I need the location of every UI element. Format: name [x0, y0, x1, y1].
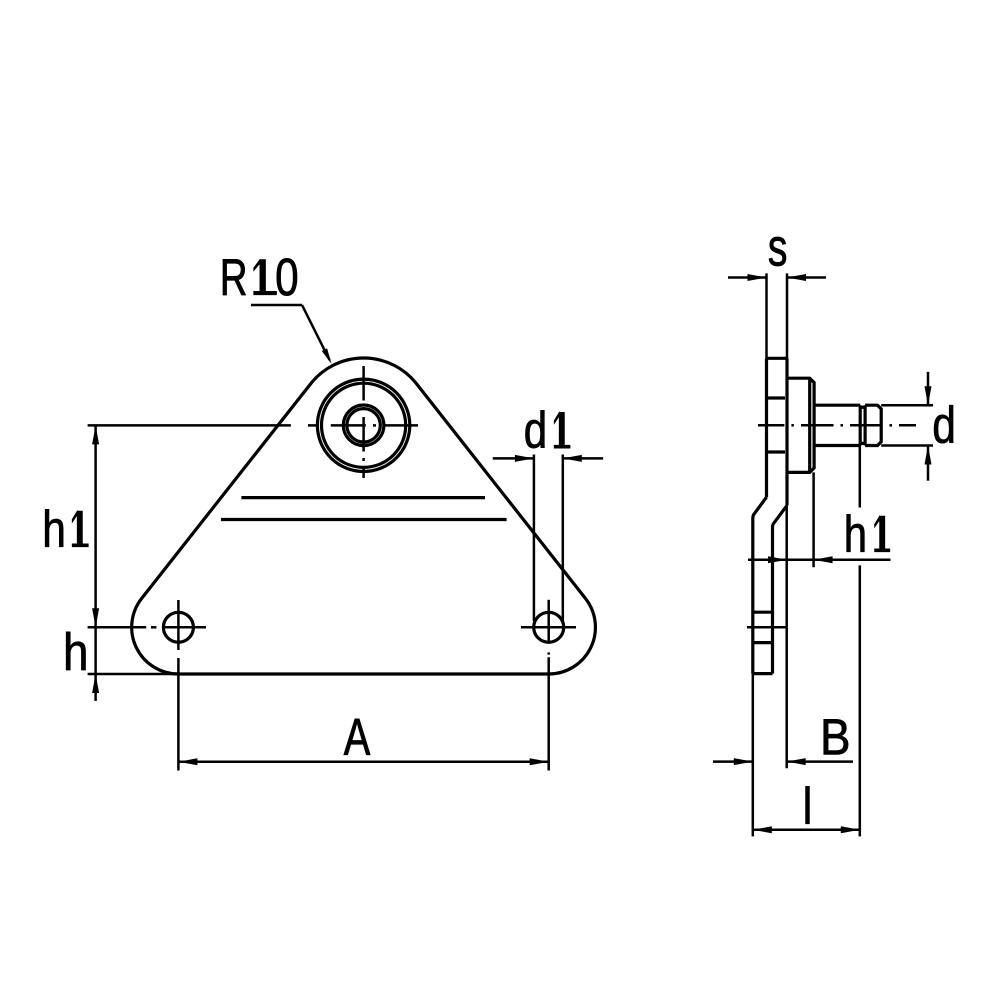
s left outside arrow	[748, 274, 767, 281]
d1 left outside arrow	[515, 455, 534, 462]
l left arrow	[753, 826, 772, 833]
h bottom outside arrow	[92, 674, 99, 693]
front view: top boss outer circle	[317, 379, 409, 471]
front view: upper bend line	[241, 496, 485, 499]
d bottom outside arrow	[925, 446, 932, 465]
side view: bottom hole top edge	[753, 611, 773, 614]
h1 bottom arrow	[92, 608, 99, 627]
side view: pin end cap outline	[865, 405, 881, 445]
side view: plate upper strip back edge	[765, 358, 768, 497]
front view: bottom-left hole	[163, 612, 193, 642]
boss face extension line (h1)	[812, 472, 815, 567]
right hole horizontal centerline	[521, 626, 576, 629]
dimension h1 (side) line	[748, 558, 891, 561]
h1 extension line / top hole horizontal centerline	[88, 424, 291, 427]
d1 dimension line right tail	[563, 457, 603, 460]
front view: top boss inner circle	[322, 383, 406, 467]
side view: plate top edge	[767, 357, 788, 360]
side view: groove top edge	[860, 406, 865, 409]
side view: plate front face edge	[785, 358, 788, 505]
side view: pin groove left edge	[859, 405, 862, 445]
side view: jog front edge diagonal	[773, 505, 788, 673]
B right outside arrow	[787, 758, 806, 765]
side view: lower edge tick	[767, 450, 786, 453]
dimension h1 (front) line	[94, 425, 97, 627]
d1 right extension line	[562, 455, 565, 622]
side view: pin centerline	[758, 424, 784, 427]
s right extension line	[786, 273, 789, 358]
h bottom extension line	[88, 673, 180, 676]
left hole vertical centerline / A extension line	[177, 600, 180, 650]
lower strip back face extension line (B/l)	[752, 674, 755, 837]
h1 side left outside arrow	[768, 556, 787, 563]
B left outside arrow	[734, 758, 753, 765]
side view: boss chamfer silhouette	[808, 378, 811, 472]
label h1 (side)	[847, 514, 890, 552]
s left extension line	[765, 273, 768, 358]
side view: bottom hole centerline	[747, 626, 787, 629]
side view: pin groove right edge	[863, 405, 866, 445]
side view: pin shaft top edge	[814, 404, 860, 407]
side view: plate bottom edge	[753, 672, 773, 675]
d bottom extension line	[881, 444, 933, 447]
A left arrow	[178, 758, 197, 765]
d dimension line bottom tail	[927, 446, 930, 481]
plate front face extension line (h1/B)	[785, 505, 788, 768]
R10 leader underline	[251, 304, 302, 307]
side view: jog back edge diagonal	[753, 497, 767, 673]
d dimension line top tail	[927, 372, 930, 405]
label s	[769, 237, 786, 266]
dimension l line	[753, 829, 860, 832]
label B	[824, 719, 848, 754]
dimension h line	[94, 627, 97, 674]
d top outside arrow	[925, 386, 932, 405]
h1/h extension line + left hole horizontal centerline	[88, 626, 147, 629]
label l	[806, 786, 810, 824]
side view: groove bottom edge	[860, 442, 865, 445]
B dimension line right tail	[787, 760, 853, 763]
d1 right outside arrow	[563, 455, 582, 462]
front view: bracket plate outline (rounded triangle, corner R10)	[132, 358, 596, 674]
side view: upper edge tick	[767, 396, 786, 399]
l right arrow	[841, 826, 860, 833]
label R10	[223, 258, 297, 295]
R10 leader diagonal	[302, 305, 330, 360]
h1 side right outside arrow	[814, 556, 833, 563]
s right outside arrow	[787, 274, 806, 281]
top hole vertical centerline	[362, 366, 365, 401]
front view: lower bend line	[221, 518, 507, 521]
front view: pin bore circle	[347, 409, 380, 442]
label h	[66, 632, 85, 670]
R10 leader arrow	[322, 348, 332, 364]
label A	[344, 719, 370, 755]
h1 top arrow	[92, 425, 99, 444]
front view: pin outer circle	[343, 405, 384, 446]
A right arrow	[530, 758, 549, 765]
d1 left extension line	[533, 455, 536, 622]
pin groove extension line (l)	[859, 446, 862, 508]
side view: pin shaft bottom edge	[814, 444, 860, 447]
front view: bottom-right hole	[534, 612, 564, 642]
d top extension line	[881, 404, 933, 407]
s dimension line right tail	[787, 276, 826, 279]
B dimension line left tail	[713, 760, 753, 763]
label d	[934, 405, 953, 443]
dimension A line	[178, 761, 548, 764]
side view: bottom hole bottom edge	[753, 641, 773, 644]
right hole vertical centerline / A extension line	[547, 600, 550, 644]
side view: boss outline	[787, 378, 814, 472]
s dimension line left tail	[728, 276, 767, 279]
label d1	[526, 410, 571, 448]
label h1 (front)	[45, 509, 88, 547]
d1 dimension line left tail	[493, 457, 534, 460]
